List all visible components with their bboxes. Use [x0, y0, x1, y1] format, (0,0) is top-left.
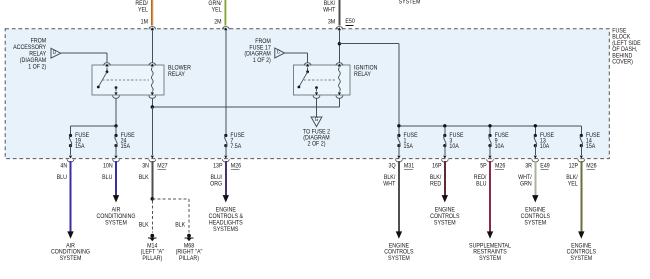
svg-text:1 OF 2): 1 OF 2)	[253, 58, 271, 64]
svg-text:M31: M31	[404, 163, 414, 169]
svg-text:15A: 15A	[404, 144, 414, 150]
svg-text:E50: E50	[345, 19, 354, 25]
svg-text:10A: 10A	[495, 144, 505, 150]
svg-text:BLK: BLK	[139, 175, 149, 181]
svg-text:RELAY: RELAY	[354, 72, 371, 78]
svg-text:SYSTEMS: SYSTEMS	[213, 227, 238, 233]
svg-text:4N: 4N	[60, 163, 67, 169]
svg-text:YEL: YEL	[138, 7, 148, 13]
svg-text:YEL: YEL	[568, 181, 578, 187]
svg-text:BLU: BLU	[102, 175, 112, 181]
svg-text:M26: M26	[586, 163, 596, 169]
svg-text:1 OF 2): 1 OF 2)	[28, 64, 46, 70]
svg-text:SYSTEM: SYSTEM	[524, 220, 546, 226]
svg-text:WHT: WHT	[383, 181, 395, 187]
svg-text:5P: 5P	[480, 163, 487, 169]
svg-text:16P: 16P	[432, 163, 442, 169]
svg-text:BLK: BLK	[139, 222, 149, 228]
svg-text:13P: 13P	[213, 163, 223, 169]
svg-text:ORG: ORG	[210, 181, 223, 187]
svg-text:C: C	[277, 49, 281, 55]
svg-text:PILLAR): PILLAR)	[179, 256, 199, 262]
svg-text:RED: RED	[430, 181, 441, 187]
svg-text:3Q: 3Q	[389, 163, 397, 169]
svg-text:RELAY: RELAY	[168, 72, 185, 78]
svg-text:YEL: YEL	[212, 7, 222, 13]
svg-text:15A: 15A	[75, 144, 85, 150]
svg-text:7.5A: 7.5A	[230, 144, 241, 150]
svg-text:10A: 10A	[540, 144, 550, 150]
svg-text:3M: 3M	[328, 19, 336, 25]
svg-text:WHT: WHT	[323, 7, 335, 13]
svg-text:PILLAR): PILLAR)	[142, 256, 162, 262]
svg-text:M26: M26	[495, 163, 505, 169]
svg-text:G: G	[315, 117, 319, 123]
svg-text:1M: 1M	[141, 19, 149, 25]
svg-text:12P: 12P	[569, 163, 579, 169]
svg-text:2M: 2M	[214, 19, 222, 25]
svg-text:BLK: BLK	[175, 222, 185, 228]
svg-text:GRN: GRN	[520, 181, 532, 187]
svg-text:SYSTEM: SYSTEM	[434, 220, 456, 226]
svg-text:SYSTEM: SYSTEM	[60, 256, 82, 262]
svg-text:COVER): COVER)	[612, 59, 633, 65]
svg-text:3R: 3R	[525, 163, 532, 169]
svg-text:SYSTEM: SYSTEM	[570, 256, 592, 262]
svg-text:M26: M26	[231, 163, 241, 169]
svg-text:SYSTEM: SYSTEM	[105, 220, 127, 226]
svg-text:2 OF 2): 2 OF 2)	[308, 141, 326, 147]
svg-text:10N: 10N	[103, 163, 113, 169]
svg-text:M27: M27	[157, 163, 167, 169]
svg-text:15A: 15A	[121, 144, 131, 150]
svg-text:15A: 15A	[586, 144, 596, 150]
svg-text:3N: 3N	[142, 163, 149, 169]
svg-text:E49: E49	[540, 163, 549, 169]
svg-text:SYSTEM: SYSTEM	[399, 0, 421, 6]
svg-text:SYSTEM: SYSTEM	[479, 256, 501, 262]
svg-text:D: D	[53, 50, 57, 56]
svg-text:BLU: BLU	[476, 181, 486, 187]
svg-text:BLU: BLU	[57, 175, 67, 181]
svg-text:10A: 10A	[449, 144, 459, 150]
svg-text:SYSTEM: SYSTEM	[388, 256, 410, 262]
